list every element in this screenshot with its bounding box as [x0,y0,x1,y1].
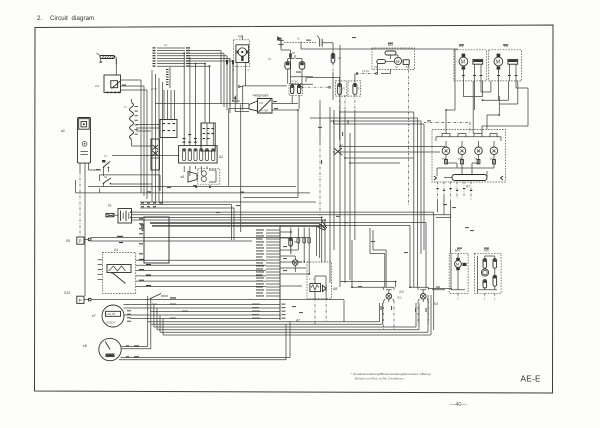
headlamp unit M2 [489,44,522,81]
relay a10 [95,57,121,93]
svg-text:m1: m1 [238,35,243,39]
svg-text:S10: S10 [64,291,70,295]
flasher relay a3 [181,169,220,185]
fan motor M4 [449,249,468,294]
svg-text:P: P [79,298,82,303]
connector block G3 [136,125,160,171]
wire a10 feeds down [141,80,147,199]
svg-text:A8: A8 [333,287,337,291]
wire long runs mid-left [76,180,310,208]
wires ladder to right bus [190,51,233,67]
wire cluster feeds above [424,50,528,134]
kill switch S2b [317,36,333,54]
svg-text:P: P [79,239,82,244]
ignition coil winding [124,99,152,146]
svg-text:Circuit diagram: Circuit diagram [50,15,94,22]
svg-text:LFA 10T: LFA 10T [107,313,116,316]
fuse near ladder [289,238,298,254]
svg-text:M: M [396,59,400,64]
svg-text:14V: 14V [259,102,264,105]
svg-text:U 4SB: U 4SB [261,110,268,113]
park switch S9 [66,236,310,244]
fuse holder C1 [268,36,316,84]
svg-text:E10: E10 [398,297,403,300]
svg-text:e8: e8 [83,344,87,348]
connector block G1 [139,217,169,263]
wire bus down from ladder [221,51,233,113]
relay A1 [98,248,267,294]
indicator lamp K3 [418,287,438,325]
connector ladder top-left [153,44,191,67]
svg-text:A7: A7 [466,185,470,189]
terminal label column [151,67,170,91]
fuse F1 [335,81,347,96]
connector block G2 [160,90,177,138]
wire mid horizontal runs [330,45,445,287]
svg-text:M 61: M 61 [152,303,158,306]
svg-text:a3: a3 [181,175,185,179]
wire long runs into ladder from left [132,217,327,262]
svg-text:a10: a10 [95,85,100,88]
switch S6 lever [150,294,168,307]
wire bottom risers to gauges [286,321,290,360]
wiper motor M3 [372,43,415,206]
wire bottom nested bundle [148,295,431,349]
svg-text:A1: A1 [114,248,118,252]
lamp cluster A7 [432,130,506,189]
wire ladder drop verticals [291,228,311,275]
wire mid bundle to right components [132,212,451,330]
wire label marks scatter [96,37,508,322]
svg-text:A2: A2 [219,155,223,159]
horn m1 [233,35,250,104]
fuse block F3 F4 [289,81,302,109]
wire bundle left of cluster [310,112,424,287]
ignition switch a2 [61,118,101,297]
wire bus top mid [155,58,249,106]
wire cluster tails below [436,182,472,218]
svg-text:Brücke von Pin1 zu Pin 2 entfe: Brücke von Pin1 zu Pin 2 entfernen [355,377,404,381]
wire fuse F1 F2 leads [333,74,355,101]
svg-text:K3: K3 [434,302,438,306]
svg-text:—40—: —40— [450,402,467,408]
wire regulator leads [229,95,298,186]
wire fuse box feeds [183,53,214,176]
wire K2 K3 feeds [340,228,452,290]
park switch S10 [64,291,344,322]
battery b1 [106,204,132,224]
lamp unit M5 [458,249,501,300]
svg-text:0.5 sw: 0.5 sw [362,70,369,73]
connector ladder X1 [256,226,324,320]
svg-text:M: M [496,60,501,66]
svg-text:M: M [461,60,466,66]
headlamp unit M1 [454,44,487,81]
ground strap [140,224,144,231]
border frame [35,25,554,393]
svg-text:e7: e7 [92,314,96,318]
connector A2 upper [201,64,215,151]
wire dashed link to M3 [356,70,378,74]
wire from a10 to right [121,80,148,90]
svg-text:* Sonderausstattung/Blinkersch: * Sonderausstattung/Blinkerschaltung(bes… [351,372,432,376]
wire headlamp feeds [301,42,528,127]
svg-text:31b: 31b [374,66,379,69]
fuse F2 [348,81,361,96]
svg-text:K2: K2 [400,290,404,294]
diode unit A8 [307,262,337,326]
connector ladder X1 lower group [123,304,300,323]
wire left bus column [152,70,163,205]
svg-text:AE-E: AE-E [521,375,542,384]
footnote [351,372,432,381]
svg-text:S9: S9 [66,239,70,243]
indicator lamp K2 [384,287,404,330]
svg-text:b1: b1 [108,204,112,208]
switch S5 [100,175,161,193]
wire regulator frame loop [140,86,330,240]
fuse A3b [306,54,342,83]
switch S1 lever top-left [97,53,115,63]
svg-text:F3 F4: F3 F4 [292,81,299,84]
terminal row labels left [141,203,162,208]
indicator gauge e7 [92,305,124,327]
svg-text:2.: 2. [37,15,42,22]
svg-text:BOSCH: BOSCH [107,322,116,325]
svg-text:M4: M4 [455,249,460,253]
svg-text:M5: M5 [484,249,489,253]
fuse box A2 [179,146,224,163]
svg-text:a2: a2 [61,129,65,133]
clock gauge e8 [83,338,290,360]
svg-text:+Regulator: +Regulator [252,94,270,98]
voltage regulator [249,94,272,114]
switch S4 [102,155,211,188]
connector S8 pair [285,52,305,84]
bulb K1 [293,256,303,272]
